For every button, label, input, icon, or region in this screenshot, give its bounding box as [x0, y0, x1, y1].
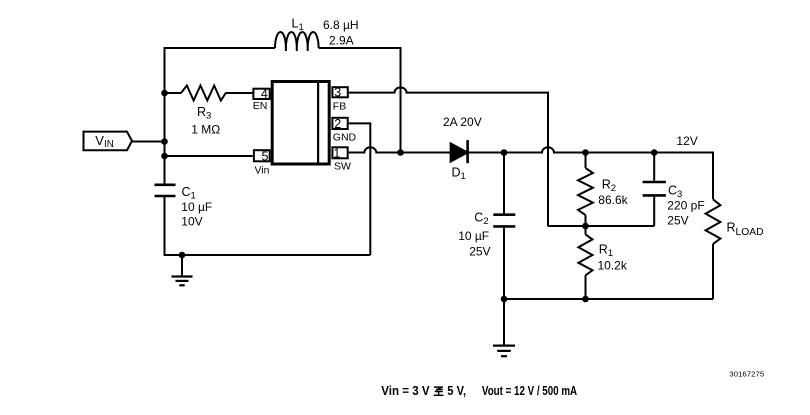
svg-text:SW: SW — [334, 161, 351, 173]
svg-text:12V: 12V — [676, 134, 697, 148]
diode D1 — [450, 140, 468, 163]
node R2 top — [582, 149, 589, 156]
node inductor/SW — [397, 149, 404, 156]
wire ground stem right — [503, 299, 505, 345]
svg-text:EN: EN — [253, 100, 268, 112]
svg-text:10 µF: 10 µF — [181, 200, 212, 214]
wire R1 top lead — [585, 226, 587, 234]
pin 4 box — [253, 89, 269, 99]
capacitor C1 — [155, 185, 176, 196]
resistor R3 — [181, 86, 226, 101]
IC U1 body — [272, 82, 329, 165]
wire bottom rail — [504, 298, 713, 300]
wire Vin pin row — [165, 155, 253, 157]
svg-text:FB: FB — [333, 100, 346, 112]
wire C3 bottom — [653, 197, 655, 226]
wire left vertical lower — [165, 196, 371, 255]
wire C2 bottom — [503, 228, 505, 299]
wire C2 top — [503, 153, 505, 214]
wire R1 bottom lead — [585, 275, 587, 299]
inductor L1 — [275, 32, 319, 48]
svg-text:GND: GND — [333, 132, 357, 144]
svg-text:220 pF: 220 pF — [667, 199, 704, 213]
node C3 top — [651, 149, 658, 156]
wire GND pin down — [349, 123, 371, 255]
node C2 bottom — [501, 296, 508, 303]
capacitor C3 — [643, 182, 666, 195]
wire top rail right — [319, 48, 401, 153]
node C2 top — [501, 149, 508, 156]
wire diode to output with hop — [469, 147, 714, 199]
svg-text:10.2k: 10.2k — [598, 258, 628, 272]
resistor RLOAD — [706, 199, 721, 244]
ground right — [493, 346, 515, 357]
wire top rail left — [165, 48, 276, 184]
pin 3 box — [332, 87, 347, 97]
wire R3 left lead — [165, 92, 182, 94]
svg-text:1 MΩ: 1 MΩ — [191, 123, 220, 137]
svg-text:25V: 25V — [667, 214, 688, 228]
svg-text:1: 1 — [333, 146, 340, 160]
VIN input tag — [84, 132, 133, 151]
wire C3 top — [653, 153, 655, 181]
svg-text:25V: 25V — [469, 244, 490, 258]
node R2/R1 divider — [582, 223, 589, 230]
svg-text:3: 3 — [334, 86, 341, 100]
wire feedback node row — [548, 225, 655, 227]
svg-text:Vin = 3 V: Vin = 3 V — [381, 384, 430, 398]
svg-text:Vin: Vin — [255, 165, 270, 177]
svg-text:30167275: 30167275 — [729, 370, 764, 379]
svg-text:5 V,: 5 V, — [447, 384, 466, 398]
wire R2 top lead — [585, 153, 587, 169]
wire VIN lead — [133, 141, 165, 143]
wire RLOAD bottom lead — [712, 244, 714, 299]
svg-text:2A 20V: 2A 20V — [443, 115, 482, 129]
svg-text:2.9A: 2.9A — [329, 33, 354, 47]
svg-text:2: 2 — [334, 117, 341, 131]
node VIN tap — [161, 138, 168, 145]
wire R2 bottom lead — [585, 215, 587, 226]
wire SW to diode with hop — [349, 147, 451, 152]
pin 5 box — [254, 150, 270, 161]
svg-text:Vout = 12 V / 500 mA: Vout = 12 V / 500 mA — [482, 384, 577, 398]
node Vin pin tap — [161, 153, 168, 160]
wire FB row with hop — [349, 87, 548, 226]
wire R3 to pin 4 — [226, 92, 253, 94]
svg-text:10 µF: 10 µF — [458, 229, 489, 243]
node R1 bottom — [582, 296, 589, 303]
wire ground stem left — [181, 255, 183, 276]
pin 2 box — [332, 118, 347, 129]
svg-text:5: 5 — [262, 149, 269, 163]
node ground tap left — [179, 252, 186, 259]
svg-text:10V: 10V — [181, 214, 202, 228]
resistor R1 — [578, 234, 592, 275]
caption glyph zhi — [434, 387, 444, 395]
pin 1 box — [332, 147, 347, 158]
svg-text:6.8 µH: 6.8 µH — [323, 18, 359, 32]
ground left — [172, 277, 193, 286]
capacitor C2 — [493, 215, 515, 227]
node junction dots — [161, 90, 657, 303]
svg-text:86.6k: 86.6k — [598, 193, 628, 207]
resistor R2 — [578, 168, 593, 215]
node R3/EN tap — [161, 90, 168, 97]
